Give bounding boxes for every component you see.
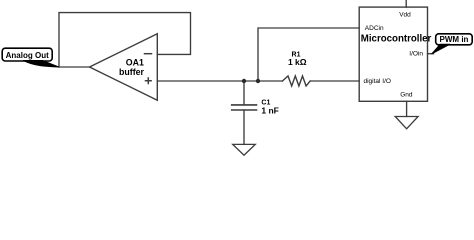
svg-text:buffer: buffer bbox=[119, 67, 144, 77]
I/Oin pin stub bbox=[428, 53, 434, 55]
flag PWM in bbox=[432, 34, 473, 54]
resistor R1 bbox=[282, 76, 310, 86]
svg-text:digital I/O: digital I/O bbox=[364, 78, 391, 85]
op-amp minus marker bbox=[145, 53, 152, 55]
svg-text:Microcontroller: Microcontroller bbox=[361, 34, 432, 45]
svg-text:PWM in: PWM in bbox=[440, 35, 469, 44]
svg-text:Analog Out: Analog Out bbox=[6, 51, 49, 60]
wire main output to resistor bbox=[157, 80, 282, 82]
svg-text:ADCin: ADCin bbox=[365, 25, 384, 32]
Gnd pin stub bbox=[406, 101, 408, 116]
wire node to ADCin bbox=[258, 28, 359, 81]
capacitor C1 top lead bbox=[243, 81, 245, 105]
wire feedback loop bbox=[59, 13, 191, 67]
op-amp plus marker bbox=[146, 78, 152, 84]
svg-text:Gnd: Gnd bbox=[400, 92, 413, 99]
svg-text:OA1: OA1 bbox=[126, 58, 144, 68]
capacitor C1 bottom lead bbox=[243, 110, 245, 144]
wire resistor to MCU digital I/O bbox=[310, 80, 359, 82]
svg-text:1 kΩ: 1 kΩ bbox=[288, 57, 307, 67]
ground (MCU) bbox=[395, 117, 418, 129]
wire output bbox=[59, 66, 90, 68]
capacitor C1 plates bbox=[232, 105, 257, 110]
junction node B bbox=[256, 79, 260, 83]
op-amp OA1 bbox=[90, 34, 158, 100]
flag Analog Out bbox=[2, 48, 59, 67]
Vdd pin stub bbox=[405, 0, 407, 7]
svg-text:1 nF: 1 nF bbox=[261, 105, 278, 115]
microcontroller U1 box bbox=[359, 7, 427, 101]
junction node A bbox=[242, 79, 246, 83]
svg-text:I/Oin: I/Oin bbox=[409, 51, 423, 58]
ground (C1) bbox=[233, 144, 256, 155]
svg-text:Vdd: Vdd bbox=[399, 12, 411, 19]
